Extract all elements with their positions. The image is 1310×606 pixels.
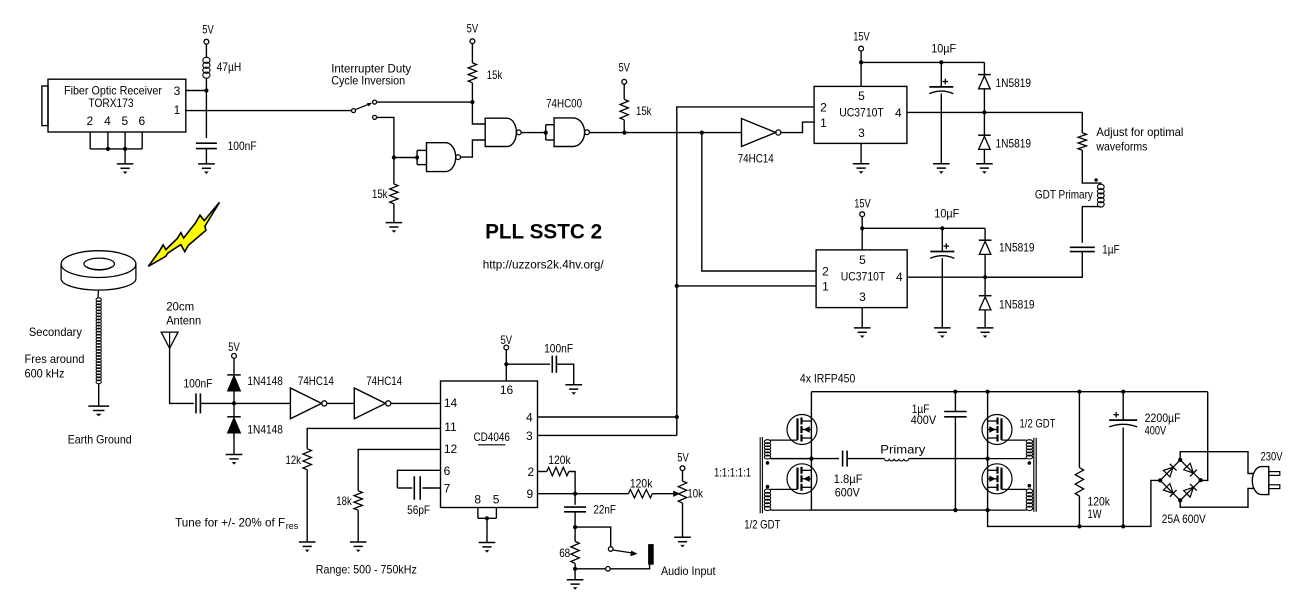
svg-text:5: 5: [858, 89, 865, 103]
ground: [226, 454, 243, 456]
svg-text:2: 2: [86, 114, 93, 128]
nand gate U2A tied-input bracket: [416, 150, 418, 164]
resistor 18k: [354, 491, 362, 510]
diode D1 1N5819: [983, 62, 985, 74]
transformer left GDT core: [759, 437, 761, 513]
svg-text:Primary: Primary: [880, 443, 925, 457]
svg-text:3: 3: [526, 429, 533, 443]
svg-text:1N4148: 1N4148: [247, 374, 283, 388]
svg-text:Range: 500 - 750kHz: Range: 500 - 750kHz: [316, 563, 417, 577]
wire mid rail left: [771, 458, 840, 460]
transistor Q4 IRFP450 lower right: [982, 464, 1012, 494]
right GDT upper winding: [1026, 440, 1032, 444]
15V terminal upper: [859, 46, 864, 51]
svg-text:9: 9: [526, 487, 533, 501]
svg-text:25A 600V: 25A 600V: [1162, 512, 1206, 526]
diode D2 1N5819: [983, 112, 985, 135]
svg-text:3: 3: [859, 290, 866, 304]
svg-text:18k: 18k: [336, 494, 352, 508]
svg-text:400V: 400V: [1145, 423, 1167, 437]
svg-text:4: 4: [896, 270, 903, 284]
nand gate U2C: [554, 118, 585, 147]
svg-text:1N5819: 1N5819: [999, 240, 1035, 254]
svg-text:waveforms: waveforms: [1096, 140, 1148, 154]
toroid topload: [61, 251, 136, 278]
wire inverter out to upper driver pin1: [781, 122, 814, 133]
wire 15V to rail: [861, 217, 863, 229]
left GDT phase dot lower: [766, 485, 770, 489]
svg-text:5: 5: [121, 114, 128, 128]
svg-text:http://uzzors2k.4hv.org/: http://uzzors2k.4hv.org/: [483, 258, 605, 272]
node audio divider: [573, 525, 577, 529]
svg-text:10µF: 10µF: [934, 207, 959, 221]
ground: [934, 327, 951, 329]
wire pin11 to 12k: [307, 428, 440, 448]
svg-text:15k: 15k: [487, 68, 503, 82]
wire 12k to ground: [306, 470, 308, 542]
svg-text:4: 4: [895, 106, 902, 120]
wire throw B down: [377, 117, 394, 157]
5V terminal pullup 2: [622, 79, 627, 84]
wire 5V to pin16: [505, 350, 507, 381]
wire toroid to secondary: [97, 290, 100, 298]
node pin4 diode junction lower: [983, 275, 987, 279]
wire inductor to node: [205, 78, 207, 91]
right GDT phase dot lower: [1028, 484, 1032, 488]
svg-text:Adjust for optimal: Adjust for optimal: [1096, 125, 1183, 139]
ground: [933, 163, 950, 165]
wire to resistor 15k3: [393, 158, 395, 185]
wire resistor to ground: [393, 204, 395, 223]
earth ground: [88, 405, 109, 407]
switch SW1 throw A: [373, 100, 377, 104]
inductor tesla primary: [884, 459, 908, 461]
wire mid rail right: [909, 458, 988, 460]
svg-text:UC3710T: UC3710T: [841, 270, 886, 284]
node bridge mid left: [809, 457, 813, 461]
5V terminal clamp: [232, 354, 237, 359]
wire to jack tip contact: [575, 527, 611, 547]
node right leg top: [986, 390, 990, 394]
wire GDT primary to 1uF: [1082, 207, 1101, 243]
svg-text:2: 2: [820, 101, 827, 115]
svg-text:TORX173: TORX173: [89, 96, 134, 110]
svg-text:4x IRFP450: 4x IRFP450: [800, 371, 856, 385]
svg-text:5: 5: [859, 253, 866, 267]
svg-text:15V: 15V: [853, 29, 870, 43]
svg-text:5V: 5V: [618, 61, 630, 75]
wire capacitor to ground: [556, 364, 573, 385]
svg-text:1/2 GDT: 1/2 GDT: [1020, 417, 1057, 431]
wire 120k corner to pin9 node: [569, 472, 575, 494]
node to lower driver branch: [700, 131, 704, 135]
node throw B / gate input: [392, 155, 396, 159]
wire pin7 stub: [422, 487, 440, 489]
svg-text:74HC14: 74HC14: [366, 374, 402, 388]
wire mid rail to primary: [847, 458, 884, 460]
wire pin9: [538, 493, 629, 495]
svg-text:1: 1: [820, 116, 827, 130]
wire branch down to lower driver IN: [702, 133, 816, 271]
svg-text:600V: 600V: [835, 486, 860, 500]
wire pin3 to ground lower: [861, 308, 863, 328]
IC fiber optic receiver TORX173: [48, 79, 186, 132]
resistor 68: [574, 527, 576, 541]
svg-text:Cycle Inversion: Cycle Inversion: [331, 74, 405, 88]
svg-text:1: 1: [822, 280, 829, 294]
wire pin5 stub: [860, 62, 862, 86]
svg-text:1N4148: 1N4148: [247, 422, 283, 436]
capacitor 2200uF 400V: [1122, 392, 1124, 420]
svg-text:Antenn: Antenn: [166, 314, 201, 328]
diode D6 1N4148: [233, 403, 235, 416]
svg-text:5V: 5V: [228, 340, 240, 354]
wire to lower driver pin1: [677, 285, 816, 287]
wire node to inverter: [234, 402, 290, 404]
node 15V rail: [859, 60, 863, 64]
svg-text:4: 4: [526, 410, 533, 424]
node U2C tied input: [544, 131, 548, 135]
svg-text:47µH: 47µH: [217, 60, 242, 74]
ground: [977, 327, 994, 329]
wire pin12 to 18k: [358, 449, 440, 490]
wire pin5 stub lower: [861, 228, 863, 250]
node pin4 diode junction: [982, 110, 986, 114]
IC U1 CD4046: [441, 381, 538, 508]
svg-text:1.8µF: 1.8µF: [834, 472, 863, 486]
wire U2C output bus: [589, 132, 741, 134]
svg-text:res: res: [286, 521, 299, 532]
svg-text:11: 11: [444, 420, 457, 434]
inverter U3C 74HC14: [354, 388, 385, 419]
node bridge mid right: [986, 457, 990, 461]
svg-text:600 kHz: 600 kHz: [25, 367, 65, 381]
wire throw A to pullup node: [377, 101, 473, 103]
svg-text:56pF: 56pF: [407, 503, 430, 517]
svg-text:CD4046: CD4046: [473, 430, 510, 444]
resistor 120k phase2: [628, 490, 652, 498]
potentiometer 10k: [680, 466, 685, 471]
ground: [299, 541, 316, 543]
svg-text:100nF: 100nF: [544, 342, 573, 356]
node top rail 2200uF: [1121, 390, 1125, 394]
wire resistor to GDT primary: [1082, 150, 1101, 185]
node top rail 120k: [1077, 390, 1081, 394]
junction pins 4-5: [106, 147, 110, 151]
left GDT phase dot upper: [766, 461, 770, 465]
wire top rail to bridge plus: [1201, 392, 1208, 481]
svg-text:Secondary: Secondary: [29, 325, 82, 339]
node pullup junction: [470, 100, 474, 104]
svg-text:1N5819: 1N5819: [996, 76, 1032, 90]
wire capacitor to clamp node: [200, 402, 234, 404]
svg-text:12k: 12k: [286, 453, 302, 467]
svg-text:400V: 400V: [911, 413, 936, 427]
resistor 12k: [303, 449, 311, 470]
capacitor 22nF audio coupling: [574, 494, 576, 505]
svg-text:5V: 5V: [677, 450, 689, 464]
svg-text:120k: 120k: [630, 477, 653, 491]
15V terminal lower: [860, 212, 865, 217]
node audio ground: [573, 567, 577, 571]
diode D5 1N4148: [227, 374, 241, 376]
wire node to NAND input A: [472, 102, 485, 124]
svg-text:5V: 5V: [501, 333, 513, 347]
wire 5V to resistor: [623, 84, 625, 99]
svg-text:22nF: 22nF: [593, 503, 616, 517]
svg-text:15V: 15V: [854, 197, 871, 211]
wire 1uF to lower pin4 rail: [985, 252, 1082, 278]
svg-text:1/2 GDT: 1/2 GDT: [744, 518, 781, 532]
node rail capacitor: [939, 60, 943, 64]
ground: [386, 222, 403, 224]
node rail capacitor lower: [940, 226, 944, 230]
svg-text:120k: 120k: [548, 453, 571, 467]
nand gate U2C tied-input bracket: [545, 125, 547, 140]
svg-text:6: 6: [444, 464, 451, 478]
svg-text:100nF: 100nF: [184, 376, 213, 390]
svg-text:12: 12: [444, 442, 458, 456]
jack sleeve contact circle: [606, 567, 611, 572]
inverter U3B 74HC14: [290, 388, 321, 419]
IC U5 UC3710T lower: [816, 250, 907, 308]
inductor GDT primary winding: [1097, 184, 1104, 189]
capacitor 1uF coupling: [1070, 246, 1095, 248]
node bottom rail 120k: [1077, 524, 1081, 528]
switch SW1 throw B: [373, 115, 377, 119]
wire 56pF to bracket: [397, 487, 412, 489]
transistor Q2 IRFP450 lower left: [787, 464, 817, 494]
inductor L1 47uH: [203, 57, 210, 63]
5V terminal CD4046: [504, 345, 509, 350]
node 15V rail lower: [860, 226, 864, 230]
transistor Q3 IRFP450 upper right: [982, 415, 1012, 445]
wire 5V to resistor: [471, 44, 473, 63]
switch SW1 pole: [352, 109, 356, 113]
wire pin3 comparator in: [538, 434, 677, 436]
svg-text:8: 8: [474, 493, 481, 507]
wire right bridge leg: [987, 392, 989, 510]
wire bridge AC bottom to plug: [1180, 488, 1254, 507]
svg-text:15k: 15k: [372, 187, 388, 201]
svg-text:GDT Primary: GDT Primary: [1035, 188, 1093, 202]
ground: [479, 542, 496, 544]
wire pin4 output lower: [907, 276, 1082, 278]
node loop filter: [573, 492, 577, 496]
svg-text:68: 68: [559, 546, 570, 560]
svg-text:1N5819: 1N5819: [996, 137, 1032, 151]
audio jack plug: [648, 544, 654, 565]
svg-text:1µF: 1µF: [1102, 242, 1120, 256]
wire 15V rail lower: [862, 227, 985, 229]
ground: [853, 163, 870, 165]
wire node to capacitor: [506, 363, 550, 365]
resistor adjust for optimal waveforms: [1078, 133, 1086, 150]
svg-text:10k: 10k: [687, 487, 703, 501]
diode D4 1N5819: [984, 277, 986, 296]
right GDT phase dot upper: [1028, 461, 1032, 465]
GDT primary phase dot: [1094, 178, 1097, 181]
capacitor 1.8uF 600V: [842, 451, 844, 467]
IC U4 UC3710T upper: [814, 86, 907, 143]
inverter U3A 74HC14: [742, 119, 776, 147]
wire PSU bottom rail: [988, 480, 1161, 526]
lightning bolt: [148, 202, 219, 266]
wire U2B out to U2C: [521, 132, 546, 134]
svg-text:Audio Input: Audio Input: [661, 564, 716, 578]
wire 120k to pot wiper arrow: [652, 493, 673, 495]
switch SW1 arm arrow: [356, 104, 369, 109]
svg-text:1N5819: 1N5819: [999, 297, 1035, 311]
node pin3/5V junction: [204, 88, 208, 92]
wire inverter to inverter: [327, 402, 354, 404]
svg-text:74HC14: 74HC14: [738, 152, 774, 166]
svg-text:20cm: 20cm: [166, 300, 194, 314]
ground: [567, 579, 584, 581]
wire 15V rail: [861, 61, 984, 63]
wire fiber bottom pins: [89, 132, 91, 149]
wire resistor to node: [623, 120, 625, 133]
svg-text:230V: 230V: [1261, 450, 1283, 464]
5V terminal pullup 1: [470, 39, 475, 44]
wire to ground: [574, 569, 576, 580]
node pullup 2: [622, 131, 626, 135]
ground: [350, 541, 367, 543]
capacitor 1uF 400V bus: [953, 390, 957, 394]
ground: [565, 384, 582, 386]
node clamp junction: [232, 401, 236, 405]
wire to damping resistor: [1081, 112, 1083, 132]
wire capacitor to ground: [205, 149, 207, 164]
wire antenna down: [170, 348, 194, 403]
wire to ground: [124, 149, 126, 164]
capacitor 100nF fiber decoupling: [196, 142, 217, 144]
ground: [198, 163, 215, 165]
svg-text:UC3710T: UC3710T: [839, 106, 884, 120]
svg-text:15k: 15k: [636, 104, 652, 118]
node bottom rail 2200uF: [1121, 524, 1125, 528]
svg-text:16: 16: [500, 383, 514, 397]
wire 5V to diode: [233, 358, 235, 375]
wire pin4 output upper: [907, 111, 1082, 113]
wire 5V to inductor: [205, 44, 207, 58]
wire left bridge leg: [810, 392, 812, 510]
wire sleeve to plug: [610, 565, 649, 569]
wire bridge AC top to plug: [1180, 452, 1254, 474]
node CD4046 pin4 junction: [675, 415, 679, 419]
inductor secondary coil: [96, 298, 101, 302]
svg-text:2: 2: [527, 465, 534, 479]
ground: [674, 536, 691, 538]
diode D3 1N5819: [984, 228, 986, 240]
svg-text:Earth Ground: Earth Ground: [68, 433, 132, 447]
wire VCO output bus vertical: [677, 107, 814, 436]
node lower driver pin1 branch: [675, 284, 679, 288]
wire resistor to node: [471, 83, 473, 102]
svg-text:PLL SSTC 2: PLL SSTC 2: [485, 220, 602, 244]
wire secondary to earth ground: [98, 383, 100, 406]
wire node down to capacitor: [205, 91, 207, 139]
resistor 120k 1W bleeder: [1078, 392, 1080, 468]
wire DC+ top rail: [811, 391, 1207, 393]
svg-text:5V: 5V: [202, 23, 214, 37]
wire pin 3 to node: [186, 90, 207, 92]
svg-text:5: 5: [493, 493, 500, 507]
ground: [854, 327, 871, 329]
capacitor 56pF timing: [413, 476, 415, 499]
svg-text:Tune for +/- 20% of F: Tune for +/- 20% of F: [175, 516, 285, 530]
svg-text:74HC14: 74HC14: [298, 374, 334, 388]
svg-text:Fres around: Fres around: [25, 352, 85, 366]
svg-text:2: 2: [822, 265, 829, 279]
resistor 15k pullup 1: [468, 63, 476, 83]
capacitor 100nF CD4046 decoupling: [551, 356, 553, 373]
svg-text:74HC00: 74HC00: [546, 97, 582, 111]
svg-text:100nF: 100nF: [228, 139, 257, 153]
wire to NAND1 tied inputs: [394, 157, 417, 159]
left GDT lower winding: [764, 489, 770, 493]
capacitor 100nF antenna coupling: [195, 393, 197, 413]
ground: [976, 163, 993, 165]
svg-text:4: 4: [104, 114, 111, 128]
wire pin4 VCO out: [538, 416, 677, 418]
svg-text:10µF: 10µF: [931, 41, 956, 55]
svg-text:6: 6: [138, 114, 145, 128]
transformer right GDT core: [1033, 438, 1035, 512]
wire pin6 bracket: [397, 470, 440, 488]
wire 15V to rail: [860, 51, 862, 62]
wire inverter to CD4046 pin14: [391, 402, 441, 404]
5V terminal: [204, 39, 209, 44]
svg-text:1:1:1:1:1: 1:1:1:1:1: [714, 465, 751, 479]
wire U2A out to U2B input: [461, 140, 486, 157]
bridge rectifier 25A 600V: [1160, 460, 1180, 481]
jack tip contact circle: [608, 547, 613, 552]
svg-text:1W: 1W: [1088, 507, 1103, 521]
node pin16 decoupling: [504, 362, 508, 366]
svg-text:14: 14: [444, 396, 458, 410]
jack tip contact arrow: [613, 550, 633, 553]
wire pin 1 output: [186, 110, 352, 112]
resistor 120k phase1: [547, 467, 569, 475]
right GDT lower winding: [1026, 489, 1032, 493]
svg-text:3: 3: [858, 126, 865, 140]
svg-text:5V: 5V: [467, 22, 479, 36]
wire pin3 to ground: [860, 143, 862, 163]
svg-text:3: 3: [174, 84, 181, 98]
resistor 15k pulldown: [390, 184, 398, 204]
transistor Q1 IRFP450 upper left: [787, 415, 817, 445]
mains plug 230V: [1252, 467, 1269, 495]
svg-text:7: 7: [444, 481, 451, 495]
resistor 15k pullup 2: [620, 99, 628, 119]
wire pins 8 and 5 to ground: [477, 508, 479, 519]
nand gate U2B: [485, 118, 516, 146]
svg-text:1: 1: [174, 103, 181, 117]
left GDT upper winding: [764, 440, 770, 444]
nand gate U2A: [427, 143, 456, 172]
wire to jack sleeve contact: [575, 568, 606, 570]
wire pin2 to 120k: [538, 471, 547, 473]
ground: [117, 163, 134, 165]
wire 18k to ground: [357, 510, 359, 542]
wire bottom rail: [811, 509, 987, 511]
